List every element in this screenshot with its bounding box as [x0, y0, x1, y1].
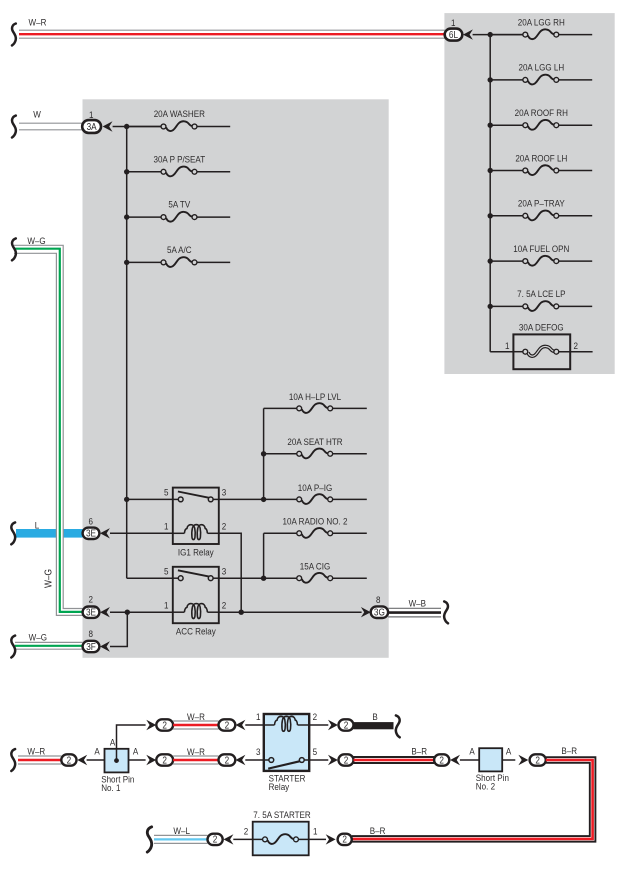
arrow into 3F: [100, 641, 110, 651]
wire into starter relay pin 1: [245, 724, 263, 726]
connector 2 (fuse row): [338, 834, 352, 845]
fuse block panel left: [83, 99, 389, 658]
wire break squiggle B: [396, 715, 400, 737]
wire fuse to arrow: [309, 838, 326, 840]
wire L blue feed: [16, 529, 83, 538]
fuse 7.5A STARTER box: [253, 822, 309, 856]
arrow into 3E pin2: [100, 607, 110, 617]
arrow (a): [77, 755, 87, 765]
wire W-R top feed: [19, 30, 445, 38]
connector 2 (W-L): [208, 834, 223, 845]
wire to short pin 1: [87, 759, 105, 761]
fuse 30A DEFOG: [490, 322, 592, 369]
relay IG1: [164, 487, 226, 558]
wire bus to IG1 pin 5: [127, 498, 173, 500]
svg-text:W–G: W–G: [29, 632, 47, 643]
svg-text:3E: 3E: [86, 528, 96, 539]
svg-text:1: 1: [89, 109, 94, 120]
svg-text:20A ROOF RH: 20A ROOF RH: [515, 107, 568, 118]
wire break squiggle W-G bottom: [11, 636, 15, 658]
connector 2 (row 1 right): [219, 719, 236, 730]
arrow into starter relay pin 3: [236, 755, 246, 765]
junction bus/IG1 pin5: [124, 497, 129, 502]
svg-text:2: 2: [342, 834, 347, 845]
svg-text:2: 2: [344, 720, 349, 731]
svg-text:L: L: [35, 520, 40, 531]
label STARTER Relay: [269, 773, 306, 792]
svg-text:2: 2: [313, 711, 318, 722]
connector 2 (before short pin 2): [434, 754, 449, 765]
svg-text:W–G: W–G: [27, 236, 45, 247]
connector 3A: [82, 120, 101, 133]
svg-text:2: 2: [213, 834, 218, 845]
svg-text:1: 1: [313, 826, 318, 837]
svg-text:No. 1: No. 1: [101, 782, 120, 793]
wire short pin 1 to row B arrow: [129, 759, 146, 761]
svg-text:7. 5A LCE LP: 7. 5A LCE LP: [517, 289, 565, 300]
svg-text:Relay: Relay: [269, 781, 290, 792]
bus vertical left panel: [126, 127, 128, 579]
svg-text:5A TV: 5A TV: [168, 199, 190, 210]
wire break squiggle W-G top: [12, 238, 16, 260]
svg-text:30A DEFOG: 30A DEFOG: [519, 322, 564, 333]
arrow into 3E pin6: [100, 528, 110, 538]
svg-text:7. 5A STARTER: 7. 5A STARTER: [253, 809, 310, 820]
arrow into fuse box: [224, 834, 234, 844]
svg-text:2: 2: [162, 720, 167, 731]
svg-text:5A A/C: 5A A/C: [167, 244, 192, 255]
wire W-G vertical run: [14, 245, 83, 615]
svg-text:5: 5: [313, 746, 318, 757]
svg-text:W–R: W–R: [29, 17, 47, 28]
svg-text:3A: 3A: [87, 121, 98, 132]
arrow out to 3G: [361, 607, 371, 617]
wire break squiggle L: [11, 522, 15, 544]
fuse 5A TV: [124, 199, 230, 222]
svg-text:1: 1: [164, 521, 169, 532]
svg-text:3: 3: [222, 566, 227, 577]
wire B solid: [354, 722, 394, 729]
label Short Pin No. 1: [101, 774, 134, 793]
junction IG1 pin2 vertical: [239, 610, 244, 615]
connector 2 (row 1 left): [156, 719, 173, 730]
fuse 15A CIG: [219, 561, 367, 583]
sub-bus RADIO/CIG: [263, 533, 265, 578]
wire break squiggle W-L: [147, 827, 151, 852]
svg-text:B–R: B–R: [411, 746, 427, 757]
wire starter relay pin 2 out: [309, 724, 328, 726]
svg-text:A: A: [94, 746, 99, 757]
svg-text:3: 3: [256, 746, 261, 757]
wire starter relay pin 5 out: [309, 759, 328, 761]
connector 3E pin2: [83, 607, 100, 618]
svg-text:W–R: W–R: [187, 711, 205, 722]
wire W-G bottom feed: [15, 642, 83, 649]
svg-text:5: 5: [164, 487, 169, 498]
wire W-R (row 1): [173, 721, 218, 729]
wire W-B out: [388, 608, 441, 617]
arrow out of fuse row: [326, 834, 336, 844]
svg-text:5: 5: [164, 566, 169, 577]
fuse 30A P P/SEAT: [124, 154, 230, 177]
svg-text:2: 2: [225, 755, 230, 766]
wire 3E2 to ACC pin 1: [110, 611, 173, 613]
fuse 20A ROOF RH: [488, 107, 593, 129]
fuse 20A LGG RH: [488, 17, 593, 39]
fuse 20A ROOF LH: [488, 153, 593, 175]
connector 2 (pin2): [339, 719, 354, 730]
svg-text:2: 2: [67, 755, 72, 766]
svg-text:1: 1: [256, 711, 261, 722]
svg-text:1: 1: [164, 600, 169, 611]
wire 6L to right bus: [473, 34, 526, 36]
svg-text:2: 2: [89, 594, 94, 605]
svg-text:3F: 3F: [86, 641, 96, 652]
svg-text:No. 2: No. 2: [476, 781, 495, 792]
fuse 10A RADIO NO. 2: [264, 516, 367, 538]
svg-text:20A SEAT HTR: 20A SEAT HTR: [287, 437, 342, 448]
wire break squiggle top left: [12, 24, 16, 46]
svg-text:B–R: B–R: [370, 825, 386, 836]
fuse block panel right: [444, 13, 614, 374]
arrow out pin 5: [328, 755, 338, 765]
sub-bus H-LP/SEAT/P-IG: [263, 408, 265, 499]
connector 3E pin6: [83, 528, 100, 539]
svg-text:2: 2: [222, 521, 227, 532]
svg-text:2: 2: [162, 755, 167, 766]
wire 3A to left bus: [113, 126, 164, 128]
label Short Pin No. 2: [476, 772, 509, 791]
svg-text:2: 2: [225, 720, 230, 731]
wire B-R right corner run: [352, 757, 596, 842]
connector 2 (a): [61, 754, 76, 765]
wire B-R middle: [354, 757, 435, 763]
wire W feed: [19, 123, 83, 130]
fuse 20A P–TRAY: [488, 198, 593, 220]
svg-text:W–R: W–R: [187, 746, 205, 757]
wire W-L feed: [154, 835, 208, 843]
wire W-G body white underlay: [14, 249, 83, 612]
svg-text:8: 8: [89, 629, 94, 640]
connector 3F: [83, 641, 100, 652]
wire ACC pin2 to 3G: [219, 611, 362, 613]
svg-text:10A FUEL OPN: 10A FUEL OPN: [513, 243, 569, 254]
svg-text:20A P–TRAY: 20A P–TRAY: [518, 198, 565, 209]
svg-text:A: A: [110, 737, 115, 748]
svg-text:6: 6: [89, 516, 94, 527]
connector 2 (pin5): [339, 754, 354, 765]
svg-text:20A ROOF LH: 20A ROOF LH: [515, 153, 567, 164]
arrow out pin 2: [328, 720, 338, 730]
svg-text:6L: 6L: [449, 29, 458, 40]
arrow out (row 3): [146, 755, 156, 765]
wire IG1 pin2 to ACC row: [219, 533, 241, 612]
fuse 10A P-IG: [219, 482, 367, 504]
bus vertical right panel: [489, 35, 491, 352]
svg-text:1: 1: [451, 17, 456, 28]
svg-text:2: 2: [344, 755, 349, 766]
fuse 7. 5A LCE LP: [488, 289, 593, 311]
wire break squiggle bottom W-R: [11, 749, 15, 771]
svg-text:2: 2: [574, 340, 579, 351]
fuse 20A SEAT HTR: [261, 437, 367, 459]
connector 3G: [371, 606, 388, 618]
wire 3F to junction: [110, 612, 127, 646]
svg-text:IG1 Relay: IG1 Relay: [178, 547, 214, 558]
svg-text:3E: 3E: [86, 607, 96, 618]
svg-text:10A RADIO NO. 2: 10A RADIO NO. 2: [283, 516, 348, 527]
svg-text:A: A: [133, 746, 138, 757]
wire to short pin 2: [460, 759, 479, 761]
svg-text:10A P–IG: 10A P–IG: [298, 482, 333, 493]
relay ACC: [164, 566, 226, 637]
svg-text:30A P P/SEAT: 30A P P/SEAT: [153, 154, 205, 165]
fuse 10A H-LP LVL: [264, 391, 367, 413]
wire short pin 1 up to row A: [117, 725, 146, 761]
svg-text:ACC Relay: ACC Relay: [176, 626, 216, 637]
wire short pin 2 out: [502, 759, 515, 761]
svg-text:20A LGG RH: 20A LGG RH: [518, 17, 565, 28]
fuse 5A A/C: [124, 244, 230, 267]
svg-text:2: 2: [439, 755, 444, 766]
svg-text:20A WASHER: 20A WASHER: [154, 108, 205, 119]
svg-text:B: B: [372, 711, 377, 722]
svg-text:2: 2: [535, 755, 540, 766]
wire W-R (row 3): [173, 756, 218, 764]
junction 3E2/3F: [125, 610, 130, 615]
connector 2 (row 3 right): [219, 754, 236, 765]
svg-text:15A CIG: 15A CIG: [300, 561, 331, 572]
relay STARTER: [264, 714, 309, 771]
arrow after short pin 2: [518, 755, 528, 765]
connector 2 (row 3 left): [156, 754, 173, 765]
arrow out (row 1): [146, 720, 156, 730]
short pin No.2 box: [479, 748, 502, 771]
svg-text:A: A: [469, 746, 474, 757]
svg-text:W–R: W–R: [27, 746, 45, 757]
svg-text:2: 2: [222, 600, 227, 611]
svg-text:W: W: [33, 109, 41, 120]
wire to fuse box: [233, 838, 252, 840]
svg-text:W–B: W–B: [409, 598, 427, 609]
connector 6L: [445, 29, 463, 41]
wire 3E6 to IG1 pin 1: [110, 532, 173, 534]
fuse 20A LGG LH: [488, 62, 593, 84]
wire break squiggle W: [12, 116, 16, 138]
arrow into 3A: [103, 121, 113, 131]
svg-text:B–R: B–R: [561, 745, 577, 756]
svg-text:W–G: W–G: [43, 569, 54, 588]
arrow into starter relay pin 1: [236, 720, 246, 730]
svg-text:1: 1: [505, 340, 510, 351]
svg-text:3: 3: [222, 487, 227, 498]
svg-text:10A H–LP LVL: 10A H–LP LVL: [289, 391, 341, 402]
svg-text:8: 8: [376, 594, 381, 605]
svg-text:W–L: W–L: [173, 825, 190, 836]
svg-text:3G: 3G: [374, 607, 385, 618]
wire break squiggle W-B: [444, 601, 448, 623]
svg-text:A: A: [506, 746, 511, 757]
wire W-R bottom feed: [18, 756, 61, 764]
wire bus corner to ACC pin 5: [127, 577, 173, 579]
connector 2 (after short pin 2): [530, 754, 546, 765]
svg-text:20A LGG LH: 20A LGG LH: [518, 62, 564, 73]
fuse 20A WASHER: [124, 108, 230, 131]
arrow into 6L: [463, 29, 473, 39]
svg-text:2: 2: [244, 826, 249, 837]
arrow into connector: [450, 755, 460, 765]
wire into starter relay pin 3: [245, 759, 263, 761]
fuse 10A FUEL OPN: [488, 243, 593, 265]
short pin No.1 box: [105, 749, 129, 773]
